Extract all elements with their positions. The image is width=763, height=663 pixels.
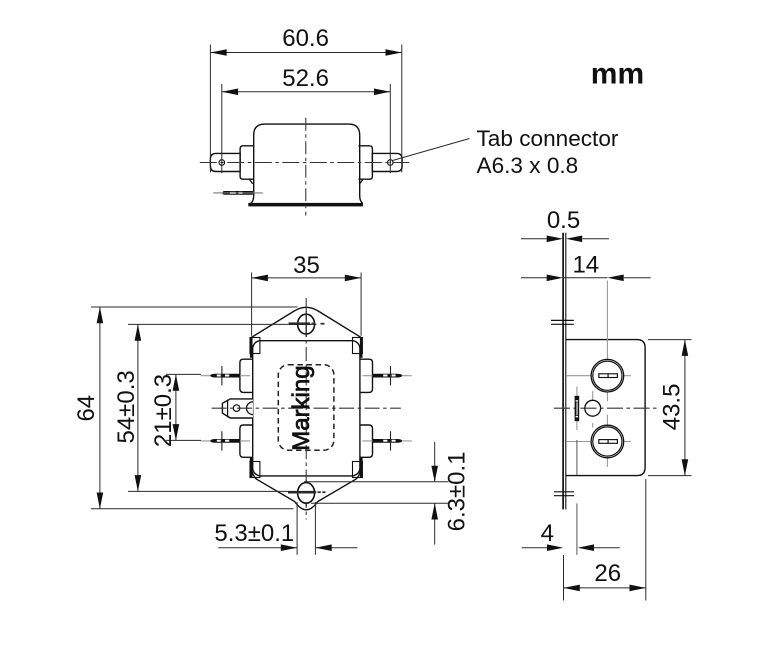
svg-text:mm: mm bbox=[591, 58, 644, 91]
bottom hole centerline bbox=[288, 491, 326, 494]
bottom mounting flange (front view) bbox=[250, 460, 362, 510]
mounting flange bar (side view) bbox=[248, 203, 363, 207]
svg-text:64: 64 bbox=[73, 395, 100, 422]
dimension 5.3±0.1 bbox=[214, 502, 357, 555]
left lower boss bbox=[240, 425, 253, 457]
dimension 4 bbox=[522, 520, 620, 551]
ground notch arc at body edge bbox=[247, 402, 253, 415]
dimension 64 bbox=[73, 307, 298, 509]
main centerline (right view) bbox=[554, 407, 659, 409]
upper tab circle bbox=[566, 281, 631, 402]
right lower pin bbox=[362, 431, 411, 450]
dimension 26 bbox=[564, 479, 646, 601]
dimension 21±0.3 bbox=[150, 374, 201, 447]
dimension 14 bbox=[521, 252, 651, 282]
left tab boss (side view) bbox=[240, 146, 254, 179]
right upper boss bbox=[360, 359, 373, 392]
left upper boss bbox=[240, 359, 253, 392]
svg-text:52.6: 52.6 bbox=[282, 65, 329, 92]
bottom flange side bars bbox=[250, 457, 253, 477]
left tab hole bbox=[219, 160, 225, 166]
ground tab bar (right view) bbox=[575, 396, 580, 421]
dimension 0.5 bbox=[521, 207, 609, 242]
horizontal centerline (side view) bbox=[200, 162, 412, 164]
vertical centerline (front view) bbox=[305, 298, 307, 520]
svg-text:21±0.3: 21±0.3 bbox=[150, 374, 177, 447]
svg-text:35: 35 bbox=[293, 252, 320, 279]
top hole centerline bbox=[289, 322, 325, 325]
svg-text:Tab connector: Tab connector bbox=[477, 126, 619, 151]
ground hole circle bbox=[585, 391, 601, 427]
svg-text:4: 4 bbox=[541, 520, 554, 547]
svg-text:43.5: 43.5 bbox=[659, 384, 686, 431]
right tab boss (side view) bbox=[359, 146, 373, 179]
dimension 54±0.3 bbox=[113, 324, 288, 491]
dimension 35 bbox=[252, 252, 362, 336]
svg-text:Marking: Marking bbox=[288, 365, 315, 450]
top mounting hole bbox=[298, 314, 315, 334]
svg-text:6.3±0.1: 6.3±0.1 bbox=[443, 451, 470, 531]
body bottom extension line bbox=[648, 475, 692, 477]
dimension 6.3±0.1 bbox=[304, 442, 470, 545]
horizontal centerline (front view) bbox=[212, 407, 401, 409]
left boss lower chamfer bbox=[250, 180, 253, 184]
marking area dashed box bbox=[278, 365, 334, 451]
leader line to tab connector bbox=[393, 139, 470, 161]
svg-text:0.5: 0.5 bbox=[547, 207, 580, 234]
right upper pin bbox=[362, 366, 411, 385]
right lower boss bbox=[360, 425, 373, 457]
left tab connector (side view) bbox=[210, 153, 240, 171]
ground tab centerline (side view) bbox=[213, 192, 262, 194]
ground tab (side view, lower left) bbox=[223, 191, 254, 195]
svg-text:14: 14 bbox=[572, 252, 599, 279]
left upper pin bbox=[201, 366, 250, 385]
dimension 52.6 bbox=[222, 65, 390, 173]
vertical centerline (side view) bbox=[305, 118, 307, 216]
dimension 60.6 bbox=[210, 25, 401, 173]
right boss lower chamfer bbox=[360, 180, 363, 184]
left lower pin bbox=[201, 431, 250, 450]
lower tab circle bbox=[566, 415, 631, 467]
mounting plate (edge view) bbox=[562, 233, 564, 510]
right tab hole bbox=[388, 160, 394, 166]
svg-text:A6.3 x 0.8: A6.3 x 0.8 bbox=[477, 153, 579, 178]
filter body (front view) bbox=[253, 341, 360, 476]
top flange side bars bbox=[250, 338, 253, 358]
bottom mounting hole bbox=[298, 483, 315, 504]
filter body (right view) bbox=[566, 340, 645, 476]
svg-text:5.3±0.1: 5.3±0.1 bbox=[214, 520, 294, 547]
svg-text:60.6: 60.6 bbox=[282, 25, 329, 52]
ground tab centerline (right view) bbox=[576, 387, 578, 555]
right tab connector (side view) bbox=[372, 153, 402, 171]
bottom flange corner squares bbox=[250, 462, 260, 478]
top flange corner squares bbox=[250, 338, 260, 354]
plate break marks bottom bbox=[554, 492, 574, 496]
top mounting flange (front view) bbox=[250, 307, 362, 338]
svg-text:54±0.3: 54±0.3 bbox=[113, 370, 140, 443]
filter body (side view) bbox=[251, 124, 363, 203]
plate break marks top bbox=[551, 320, 574, 324]
svg-text:26: 26 bbox=[594, 560, 621, 587]
body top extension line bbox=[648, 339, 692, 341]
dimension 43.5 bbox=[659, 340, 689, 476]
ground tab (front view) bbox=[222, 399, 253, 418]
